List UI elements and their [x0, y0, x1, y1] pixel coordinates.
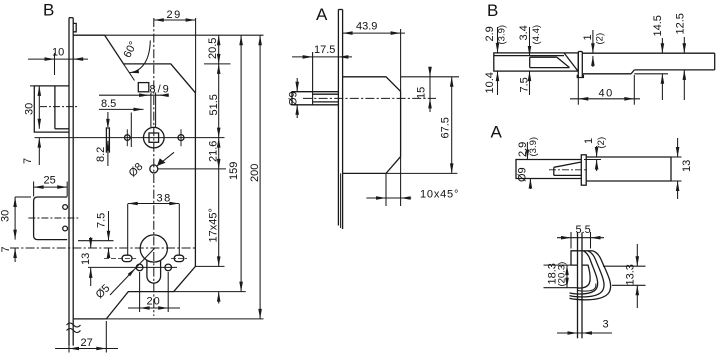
svg-text:A: A [316, 5, 328, 24]
keeper screw hole lower [63, 226, 68, 231]
hook inner elbow curve [578, 284, 596, 292]
faceplate top cap [69, 17, 73, 19]
insert top [530, 56, 557, 58]
strip line left [577, 233, 579, 339]
svg-text:17x45°: 17x45° [208, 208, 220, 242]
dimension 17.5 [292, 56, 352, 58]
svg-text:27: 27 [81, 337, 93, 349]
latch inner bottom [313, 101, 339, 103]
dimension 7 lower [14, 248, 16, 262]
keeper bottom ext line [78, 240, 114, 242]
dimension 2.9/(3.9) top [497, 27, 499, 53]
bolt inner top line [494, 55, 564, 57]
dimension 13.3 [603, 265, 646, 267]
faceplate bar right [581, 52, 583, 78]
case bottom extension line [106, 318, 263, 320]
slot axis dashes left [104, 257, 136, 259]
spring wedge diagonal [554, 162, 582, 167]
svg-text:13: 13 [681, 160, 693, 172]
dimension 1/(2) top [592, 30, 594, 53]
vertical center line [153, 18, 155, 316]
svg-text:15: 15 [416, 87, 428, 99]
svg-text:2.9: 2.9 [484, 26, 496, 41]
svg-text:20.5: 20.5 [207, 38, 219, 59]
svg-text:17.5: 17.5 [314, 44, 335, 56]
svg-text:(2): (2) [595, 33, 606, 45]
faceplate left line [68, 18, 70, 346]
60 deg chamfer extension line [124, 64, 135, 81]
dimension 10x45 [385, 173, 387, 206]
case bottom mid extension line [174, 291, 246, 293]
dimension 3 [557, 332, 612, 334]
leader O8 [157, 152, 174, 166]
latch step vertical + 17.5 ext [312, 52, 314, 105]
svg-text:200: 200 [249, 164, 261, 182]
insert bevel [557, 57, 570, 67]
dimension 13 [671, 156, 682, 158]
dimension 8.5 [130, 113, 132, 148]
60 deg angle arc [129, 41, 150, 73]
spring wedge left cap [553, 167, 555, 175]
svg-text:A: A [491, 123, 503, 142]
hook inner slot boundary [578, 265, 591, 288]
bolt outline [494, 53, 579, 71]
spring wedge bottom [554, 174, 582, 176]
svg-text:7.5: 7.5 [96, 213, 108, 228]
follower slot line left [150, 93, 152, 128]
faceplate right line [72, 18, 74, 346]
strip line right [581, 233, 583, 339]
svg-text:21.6: 21.6 [208, 141, 220, 162]
svg-text:8.5: 8.5 [101, 98, 116, 110]
svg-text:(20.3): (20.3) [557, 262, 568, 287]
keeper upper center line [40, 106, 78, 108]
dimension 3.4/(4.4) top [529, 27, 531, 56]
latch inner top [313, 93, 339, 95]
hook layer curve 2 [570, 251, 604, 297]
svg-text:7: 7 [0, 246, 12, 252]
svg-text:38: 38 [157, 193, 172, 205]
dimension 7 upper [38, 138, 40, 165]
svg-text:5.5: 5.5 [576, 224, 591, 236]
dimension 18.3/(20.3) [544, 264, 572, 266]
lock case outline [73, 35, 195, 319]
dimension 7.5 [529, 71, 531, 95]
svg-text:3.4: 3.4 [518, 25, 530, 40]
slot ext line left [127, 204, 129, 255]
svg-text:3: 3 [603, 319, 609, 331]
latch bolt rect [292, 92, 338, 105]
svg-text:Ø9: Ø9 [517, 167, 529, 182]
hole right of follower [178, 135, 184, 141]
slot feature double line right [108, 127, 110, 152]
right hole tick [180, 129, 182, 146]
keeper lower box [34, 197, 68, 240]
svg-text:51.5: 51.5 [208, 94, 220, 115]
leader O5 [110, 249, 154, 296]
faceplate middle line lower [340, 173, 342, 228]
dimension 1/(2) [596, 146, 598, 157]
faceplate foot [577, 75, 583, 78]
dimension 13 cylinder [90, 237, 92, 248]
dimension 12.5 [683, 37, 685, 53]
dimension 159 [240, 35, 242, 291]
follower axis line [35, 137, 225, 139]
dimension 14.5 [661, 38, 663, 53]
keeper screw hole upper [63, 205, 68, 210]
60 deg arc arrowhead [129, 70, 139, 74]
bolt head [516, 160, 581, 179]
svg-text:B: B [43, 1, 54, 20]
cylinder axis line [10, 247, 195, 249]
cylinder circle [140, 235, 167, 262]
svg-text:67.5: 67.5 [440, 117, 452, 138]
faceplate bar left [577, 52, 579, 78]
svg-text:29: 29 [167, 9, 182, 21]
top edge ext [401, 76, 459, 78]
keeper upper box inner bottom [55, 128, 69, 130]
dimension 27 [68, 346, 70, 353]
svg-text:25: 25 [44, 175, 56, 187]
dimension 43.9 [400, 29, 402, 91]
svg-text:7: 7 [22, 158, 34, 164]
stadium slot left [122, 255, 132, 261]
dimension 8/9 leader [99, 94, 169, 96]
svg-text:159: 159 [228, 162, 240, 180]
follower circle [144, 127, 165, 148]
keeper lower center line [28, 217, 78, 219]
bolt bevel [564, 53, 578, 71]
fixing hole axis line [88, 266, 177, 268]
dimension 67.5 [451, 77, 453, 174]
top edge extension line [105, 34, 264, 36]
svg-text:Ø9: Ø9 [288, 91, 300, 106]
slot axis dashes right [171, 257, 187, 259]
dimension 10.4 [497, 71, 499, 95]
bolt tail [586, 157, 671, 181]
dimension 25 [33, 182, 35, 197]
svg-text:12.5: 12.5 [675, 13, 687, 34]
faceplate bar [581, 155, 586, 185]
svg-text:8.2: 8.2 [95, 147, 107, 162]
insert left [529, 57, 531, 67]
svg-text:(2): (2) [596, 137, 607, 149]
svg-text:1: 1 [583, 138, 595, 144]
dimension 8.2 [107, 112, 109, 129]
svg-text:13.3: 13.3 [625, 264, 637, 285]
svg-text:(3.9): (3.9) [497, 25, 508, 45]
keeper upper box [34, 86, 69, 132]
tail top line [582, 52, 714, 54]
tail bottom right line [634, 69, 714, 71]
bottom edge ext [386, 172, 457, 174]
dimension 7.5 [108, 211, 110, 241]
notch floor extension line [204, 63, 231, 65]
hook outer curve [570, 251, 611, 300]
tail bottom step [631, 70, 634, 74]
dimension 8/9 square symbol [138, 83, 149, 92]
hole O8 [150, 165, 158, 173]
svg-text:8/9: 8/9 [150, 84, 171, 96]
faceplate bar top cap [578, 51, 582, 53]
right edge extension line [195, 265, 224, 267]
left hole tick [126, 129, 128, 146]
svg-text:14.5: 14.5 [652, 15, 664, 36]
slot feature double line left [105, 127, 107, 152]
stadium slot right [174, 255, 184, 261]
slot ext line right [178, 204, 180, 255]
dimension 2.9/(3.9) [526, 142, 528, 160]
dimension 29 [195, 18, 197, 93]
hook top edge [578, 250, 593, 252]
svg-text:7.5: 7.5 [519, 77, 531, 92]
svg-text:43.9: 43.9 [356, 21, 377, 33]
case section outline [343, 77, 401, 174]
faceplate top stub [73, 23, 76, 31]
cylinder stem [147, 260, 161, 283]
hook layer curve 3 [570, 251, 598, 294]
O8 axis ext line [158, 168, 226, 170]
svg-text:40: 40 [599, 88, 614, 100]
svg-text:B: B [487, 1, 498, 20]
dimension O9 [296, 78, 298, 92]
svg-text:20: 20 [147, 296, 161, 308]
follower square hole [149, 133, 159, 142]
bolt axis line [549, 169, 588, 171]
dimension 40 [577, 78, 579, 105]
svg-text:10x45°: 10x45° [420, 189, 459, 201]
svg-text:10.4: 10.4 [484, 72, 496, 93]
fixing hole O5 left [136, 264, 143, 271]
dimension O9 right [529, 179, 531, 190]
dimension 200 [259, 35, 261, 319]
dimension 30 lower [14, 197, 16, 240]
dimension chain line right [218, 35, 220, 266]
faceplate line right [342, 10, 344, 230]
svg-text:30: 30 [23, 103, 35, 115]
dimension 38 [128, 203, 180, 205]
faceplate line left [337, 10, 339, 226]
faceplate top cap [338, 9, 342, 11]
svg-text:1: 1 [582, 34, 594, 40]
dimension 20 [139, 272, 141, 312]
insert bottom [530, 67, 570, 69]
hole left of follower [125, 135, 131, 141]
tail bottom left line [582, 73, 631, 75]
svg-text:13: 13 [80, 253, 92, 265]
tail right cap [714, 53, 716, 70]
svg-text:30: 30 [0, 210, 11, 222]
dimension 15 [429, 67, 431, 77]
keeper upper box inner vertical [54, 86, 56, 129]
latch axis line [303, 97, 436, 99]
follower slot line right pair b [155, 93, 157, 128]
faceplate break squiggle [67, 323, 81, 327]
svg-text:(4.4): (4.4) [531, 25, 542, 45]
dimension 30 upper [38, 86, 40, 129]
dimension 10 [54, 53, 56, 75]
svg-text:10: 10 [52, 47, 64, 59]
fixing hole O5 right [165, 264, 172, 271]
svg-text:(3.9): (3.9) [528, 137, 539, 157]
dimension 5.5 [570, 232, 572, 249]
tab outline [571, 251, 578, 265]
